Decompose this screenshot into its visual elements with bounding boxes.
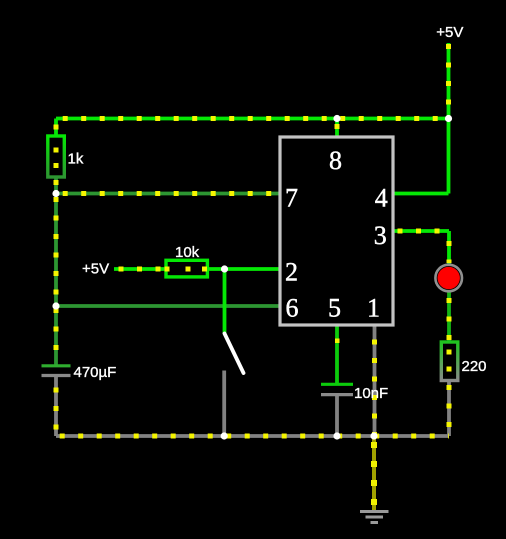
svg-text:+5V: +5V xyxy=(436,24,463,41)
wire pin5 lead xyxy=(335,326,339,385)
current dots pin7 line xyxy=(60,191,279,196)
wire 10k to junction xyxy=(208,267,225,271)
wire pin1 stub xyxy=(373,326,377,437)
node junction at pin6 branch xyxy=(52,302,59,309)
current dots pin5 lead xyxy=(335,339,340,344)
wire pin6 line xyxy=(56,304,279,308)
current dots ground lead xyxy=(371,438,377,508)
LED D1 red body xyxy=(438,267,460,289)
node junction pin8 on top rail xyxy=(333,115,340,122)
node junction ground on bottom rail xyxy=(370,432,377,439)
current dots bottom rail xyxy=(56,434,449,439)
wire pin4 vertical xyxy=(447,119,451,194)
current dots pin8 stub xyxy=(335,124,340,129)
svg-text:4: 4 xyxy=(375,184,388,213)
wire junction to pin2 xyxy=(225,267,280,271)
current dots +5V to 10k xyxy=(114,267,166,272)
wire 220 to rail xyxy=(447,381,451,437)
wire pin8 stub xyxy=(335,119,339,138)
svg-text:10nF: 10nF xyxy=(354,385,388,402)
current dots left vertical xyxy=(54,194,59,364)
wire 1k bottom lead xyxy=(54,177,58,194)
wire switch bottom post xyxy=(222,371,226,437)
svg-text:1: 1 xyxy=(367,294,380,323)
capacitor C1 470uF bottom plate xyxy=(42,374,71,377)
node junction switch on bottom rail xyxy=(221,432,228,439)
wire bottom rail xyxy=(56,434,449,438)
current dots pin3 path xyxy=(394,229,450,234)
current dots pin1 stub xyxy=(372,332,377,436)
wire top rail node A xyxy=(56,117,449,121)
current dots 1k column xyxy=(54,125,59,194)
node junction +5V on top rail xyxy=(445,115,452,122)
node junction at 10k right xyxy=(221,265,228,272)
current dots top rail xyxy=(56,116,449,121)
svg-text:2: 2 xyxy=(285,258,298,287)
current dots +5V lead xyxy=(446,43,451,119)
wire pin7 line xyxy=(56,192,279,196)
capacitor C2 10nF bottom plate xyxy=(321,393,353,396)
op-amp U1 555 chip body xyxy=(280,137,393,325)
svg-text:6: 6 xyxy=(286,294,299,323)
svg-text:220: 220 xyxy=(462,358,487,375)
wire LED to 220 xyxy=(447,291,451,342)
wire pin4 horizontal xyxy=(394,192,449,196)
resistor R2 10k xyxy=(166,260,207,277)
svg-text:8: 8 xyxy=(329,146,342,175)
current dots 220 to rail xyxy=(447,381,452,437)
wire left vertical to cap xyxy=(54,194,58,366)
svg-text:10k: 10k xyxy=(175,244,200,261)
ground symbol xyxy=(360,510,389,513)
wire pin3 horizontal xyxy=(394,229,450,233)
wire 470uF bottom lead xyxy=(54,376,58,437)
node junction at 1k bottom xyxy=(52,190,59,197)
current dots 470uF bottom lead xyxy=(54,380,59,436)
svg-text:470µF: 470µF xyxy=(74,364,117,381)
wire 1k top lead xyxy=(54,119,58,137)
capacitor C1 470uF top plate xyxy=(42,364,71,367)
resistor R3 220 xyxy=(441,342,458,381)
wire +5V lead xyxy=(447,43,451,119)
svg-text:1k: 1k xyxy=(68,151,84,168)
wire junction to switch xyxy=(223,269,227,334)
svg-text:+5V: +5V xyxy=(82,261,109,278)
svg-text:5: 5 xyxy=(328,294,341,323)
svg-text:7: 7 xyxy=(285,184,298,213)
wire +5V to 10k lead xyxy=(114,267,166,271)
node junction 10nF on bottom rail xyxy=(333,432,340,439)
wire 10nF bottom lead xyxy=(335,395,339,436)
svg-text:3: 3 xyxy=(374,221,387,250)
LED D1 ring xyxy=(435,265,462,292)
capacitor C2 10nF top plate xyxy=(321,383,353,386)
wire ground lead xyxy=(372,436,376,511)
wire pin3 down to LED xyxy=(447,231,451,265)
resistor R1 1k xyxy=(48,136,65,177)
current dots LED to 220 xyxy=(447,291,452,340)
switch S1 lever xyxy=(225,334,244,374)
